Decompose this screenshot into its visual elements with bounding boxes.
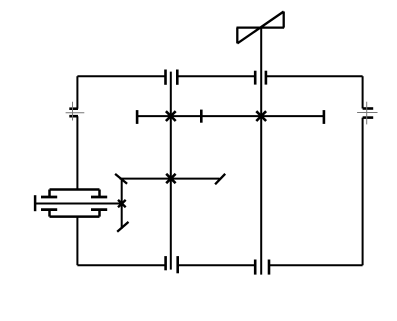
bearing B1 thin cross line bbox=[72, 102, 74, 121]
clutch C1 top legs bbox=[50, 190, 100, 198]
clutch C1 lower friction bars bbox=[41, 208, 107, 211]
fixed joint X1 (shaft II x shaft VI) bbox=[166, 111, 176, 121]
motor symbol M1 (crossed-triangle flag) bbox=[237, 12, 285, 44]
gear tick left end of clutch axis bbox=[34, 195, 37, 211]
shaft X (bottom horizontal shaft) left segment bbox=[77, 264, 165, 266]
fixed joint X4 (clutch axis x shaft VIII) bbox=[118, 200, 126, 207]
clutch axis shaft IX (horizontal) bbox=[35, 203, 122, 205]
gear pair G4 (bottom right coupling ticks) bbox=[255, 260, 269, 275]
clutch C1 upper friction bars bbox=[41, 196, 107, 199]
bearing B1 thin axis line bbox=[66, 112, 85, 114]
bearing B2 thin cross line bbox=[366, 102, 368, 125]
clutch C1 bottom plate bbox=[50, 215, 100, 218]
shaft I (top horizontal shaft) bbox=[77, 75, 165, 77]
wire: shaft I middle segment bbox=[177, 75, 255, 77]
shaft V lower segment bbox=[362, 118, 364, 266]
clutch C1 bottom legs bbox=[50, 210, 100, 217]
slanted gear tick right end of shaft VII bbox=[215, 174, 225, 185]
gear tick middle of shaft VI bbox=[200, 110, 203, 123]
shaft VII (horizontal shaft with slanted gear ticks) bbox=[120, 178, 220, 180]
shaft VIII (short vertical shaft) bbox=[121, 179, 123, 229]
shaft V (right vertical shaft, upper segment) bbox=[362, 76, 364, 108]
gear tick left end of shaft VI bbox=[136, 110, 139, 124]
bearing B2 thin axis line bbox=[357, 112, 377, 114]
shaft IV (left vertical shaft, upper segment) bbox=[76, 76, 78, 109]
bearing B2 (right sliding joint bars) bbox=[363, 109, 374, 118]
fixed joint X2 (shaft III x shaft VI) bbox=[256, 111, 266, 121]
shaft II (center vertical shaft) bbox=[170, 72, 172, 270]
gear pair G3 (bottom left coupling ticks) bbox=[166, 256, 178, 273]
bearing B1 (left sliding joint bars) bbox=[69, 109, 78, 117]
slanted gear tick top of shaft VIII bbox=[115, 174, 127, 184]
slanted gear tick bottom of shaft VIII bbox=[117, 222, 128, 232]
shaft VI (middle horizontal gear shaft) bbox=[137, 115, 324, 117]
shaft IV lower segment bbox=[76, 217, 78, 265]
gear pair G2 (top right coupling ticks) bbox=[255, 71, 266, 85]
gear pair G1 (top left coupling ticks) bbox=[166, 70, 178, 85]
wire: shaft I right segment bbox=[266, 75, 363, 77]
shaft X right segment bbox=[269, 264, 363, 266]
shaft III (vertical motor shaft) bbox=[260, 28, 262, 275]
shaft IV middle segment bbox=[76, 116, 78, 189]
clutch C1 top plate bbox=[50, 188, 100, 191]
shaft X middle segment bbox=[178, 264, 256, 266]
gear tick right end of shaft VI bbox=[323, 110, 326, 124]
fixed joint X3 (shaft II x shaft VII) bbox=[166, 174, 175, 183]
